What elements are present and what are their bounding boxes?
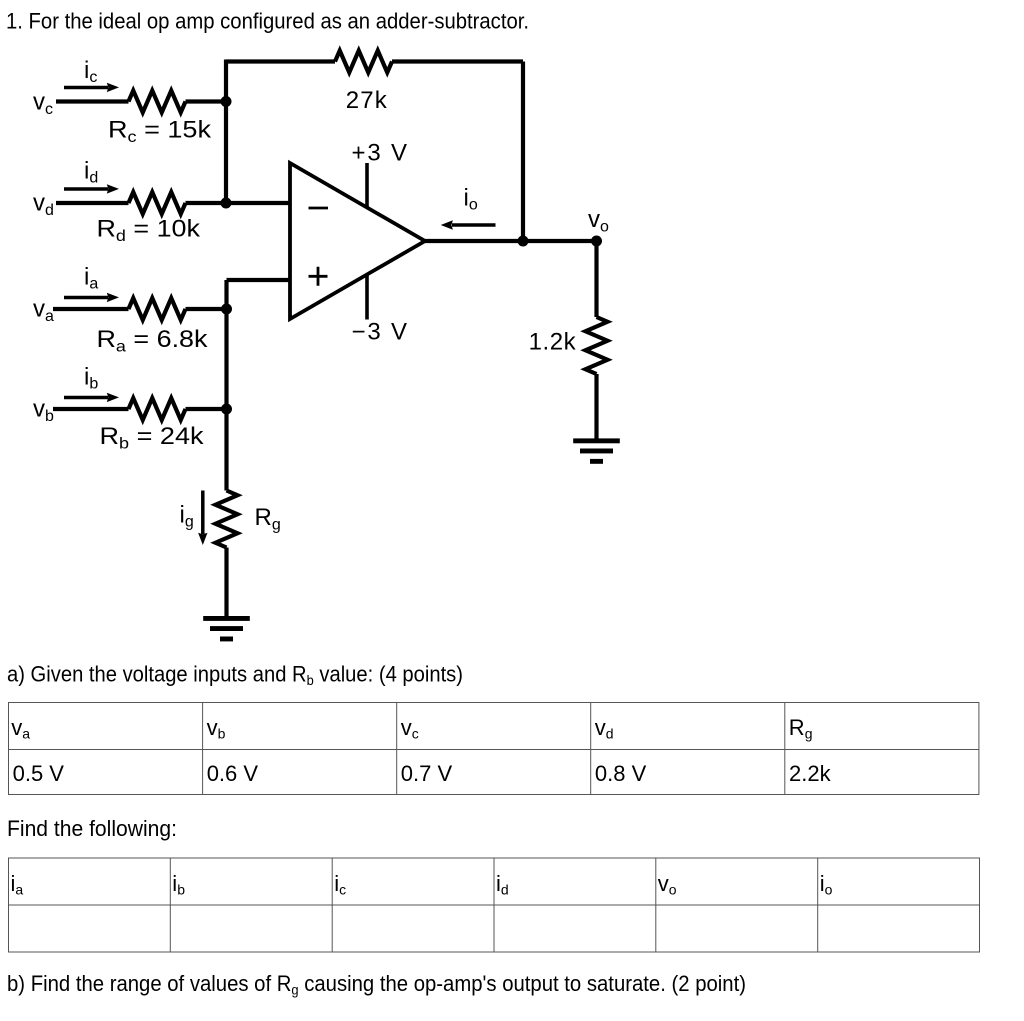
- svg-text:−3 V: −3 V: [352, 319, 408, 346]
- svg-text:1. For the ideal op amp config: 1. For the ideal op amp configured as an…: [6, 9, 529, 34]
- wire Rg to ground: [224, 548, 228, 617]
- svg-text:2.2k: 2.2k: [789, 761, 832, 786]
- wire noninverting horizontal: [227, 278, 291, 282]
- ground 2 (below Rg): [203, 616, 250, 641]
- arrow ia: [64, 296, 108, 300]
- node vo: [591, 236, 602, 247]
- svg-text:0.6 V: 0.6 V: [207, 761, 259, 786]
- svg-text:Rd = 10k: Rd = 10k: [97, 216, 202, 246]
- node junction vd: [221, 198, 232, 209]
- resistor 1.2k: [586, 317, 608, 374]
- table 2 frame: [9, 858, 980, 952]
- resistor Rg vertical: [216, 491, 238, 548]
- wire 1.2k to ground: [594, 374, 598, 439]
- wire output: [425, 239, 597, 243]
- wire vc input: [56, 99, 226, 103]
- svg-text:a) Given the voltage inputs an: a) Given the voltage inputs and Rb value…: [7, 662, 463, 689]
- table 1 frame: [9, 703, 979, 795]
- node junction va: [221, 304, 232, 315]
- wire feedback top: [226, 59, 523, 63]
- op-amp U1: [290, 163, 425, 319]
- svg-text:Find the following:: Find the following:: [7, 816, 177, 841]
- svg-text:0.5 V: 0.5 V: [13, 761, 65, 786]
- arrow ic: [64, 86, 108, 90]
- arrow ig: [201, 491, 205, 535]
- resistor Rb = 24k: [129, 398, 186, 420]
- ground 1 (below 1.2k): [573, 438, 620, 463]
- node junction feedback/output: [518, 236, 529, 247]
- arrow io: [452, 223, 496, 227]
- svg-text:Ra = 6.8k: Ra = 6.8k: [97, 326, 209, 356]
- node junction vb: [221, 404, 232, 415]
- op-amp plus sign: [309, 267, 328, 286]
- resistor Rd = 10k: [129, 192, 186, 214]
- svg-text:27k: 27k: [346, 87, 388, 114]
- resistor Ra = 6.8k: [129, 298, 186, 320]
- svg-text:1.2k: 1.2k: [529, 329, 577, 356]
- svg-text:Rb = 24k: Rb = 24k: [100, 423, 205, 453]
- wire -3V supply: [365, 275, 369, 320]
- wire vd input: [56, 201, 290, 205]
- arrow ib: [64, 396, 108, 400]
- svg-text:Rc = 15k: Rc = 15k: [108, 117, 212, 147]
- arrow id: [64, 187, 108, 191]
- wire noninverting vertical: [224, 280, 228, 491]
- svg-text:0.8 V: 0.8 V: [595, 761, 647, 786]
- wire inverting node vertical: [224, 60, 228, 204]
- wire feedback right vertical: [521, 62, 525, 242]
- wire va input: [53, 307, 227, 311]
- resistor 27k feedback: [335, 51, 392, 73]
- op-amp minus sign: [309, 207, 329, 210]
- resistor Rc = 15k: [129, 91, 186, 113]
- svg-text:+3 V: +3 V: [352, 140, 408, 167]
- svg-text:0.7 V: 0.7 V: [401, 761, 453, 786]
- svg-text:b) Find the range of values of: b) Find the range of values of Rg causin…: [7, 971, 746, 998]
- wire vo to 1.2k: [594, 241, 598, 317]
- wire +3V supply: [365, 163, 369, 208]
- wire vb input: [53, 407, 227, 411]
- node junction vc: [221, 96, 232, 107]
